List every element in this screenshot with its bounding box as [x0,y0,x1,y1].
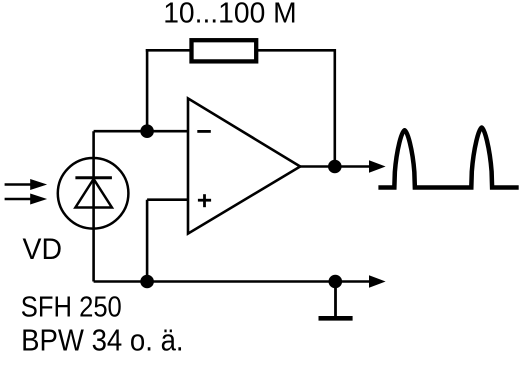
node B output junction [328,160,342,174]
resistor R1 10...100M feedback [192,40,257,61]
wire inverting input [94,130,188,133]
ground [319,282,353,319]
wire photodiode vertical [92,131,95,281]
svg-text:SFH 250: SFH 250 [21,292,122,324]
svg-text:10...100 M: 10...100 M [163,0,297,30]
wire output [300,165,370,168]
light arrow 2 [5,194,48,205]
wire resistor left horizontal [146,49,192,52]
svg-text:BPW 34 o. ä.: BPW 34 o. ä. [21,322,184,357]
light arrow 1 [5,179,48,190]
wire non-inverting input [147,198,188,201]
wire feedback left vertical [146,49,149,131]
wire bottom rail [94,280,370,283]
wire resistor right horizontal [256,49,336,52]
node C non-inverting junction [140,275,154,289]
wire non-inverting vertical [146,200,149,282]
photodiode VD [58,158,129,229]
wire feedback right vertical [333,49,336,167]
op-amp U1 [188,98,300,233]
output waveform pulses [378,128,518,188]
op-amp plus sign [198,194,211,207]
ground rail arrowhead [369,275,386,288]
svg-text:VD: VD [23,233,63,266]
node D ground junction [329,275,343,289]
output arrowhead [369,160,386,173]
node A inverting-input junction [140,124,154,138]
op-amp minus sign [197,130,211,133]
